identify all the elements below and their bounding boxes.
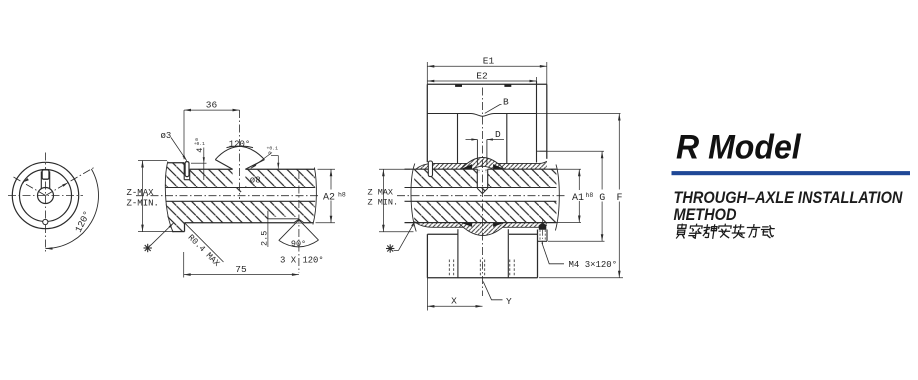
F text bg [614, 190, 626, 202]
right shaft bore top [405, 187, 557, 189]
Z dim arrow top [141, 161, 144, 168]
middle view asterisk [144, 244, 152, 252]
middle view shaft centerline [136, 195, 319, 197]
E1 arrow right [540, 65, 547, 68]
X arrow right [476, 305, 483, 308]
X arrow left [427, 305, 434, 308]
svg-text:0: 0 [268, 151, 271, 157]
housing o-ring mark right [504, 85, 511, 87]
flexspline top strip band [416, 161, 547, 169]
svg-text:Z-MAX: Z-MAX [127, 188, 155, 198]
right shaft bottom hatched band [414, 201, 556, 222]
A1 top extension [549, 168, 581, 170]
right break line curve [313, 168, 317, 225]
arrowhead at bottom of 120-degree arc [46, 247, 53, 250]
collar top edge [168, 162, 185, 164]
countersink notch at bottom edge [294, 219, 304, 223]
svg-text:B: B [503, 96, 509, 107]
left view vertical centerline [45, 153, 47, 253]
housing o-ring mark left [455, 85, 462, 87]
central slot left wall [476, 169, 478, 188]
svg-text:Z MIN.: Z MIN. [368, 198, 399, 208]
svg-text:Z MAX: Z MAX [368, 187, 394, 197]
M4 boss right wall [546, 230, 548, 242]
svg-text:G: G [599, 193, 605, 204]
flexspline top dome tooth zone [461, 158, 504, 170]
countersink left flank [215, 160, 232, 170]
pin slot right wall [189, 169, 191, 180]
svg-text:Z-MIN.: Z-MIN. [127, 199, 159, 209]
A1 arrow top [578, 169, 581, 176]
bottom housing inner wall left [457, 229, 459, 278]
shaft bottom edge [185, 222, 314, 224]
M4 set screw [539, 223, 547, 230]
hidden screw hole 3 in bottom flange [510, 260, 514, 277]
90deg fan right line [299, 220, 319, 240]
right Z bottom extension [379, 231, 414, 233]
dim 36 line [184, 109, 240, 111]
collar outer circle [12, 162, 78, 228]
svg-text:THROUGH–AXLE INSTALLATION: THROUGH–AXLE INSTALLATION [674, 189, 903, 207]
bottom housing inner wall right [507, 229, 509, 278]
countersink dome arc right [227, 146, 265, 159]
notch left hidden edge [267, 211, 269, 219]
leader dia3 arrowhead [183, 155, 187, 161]
right shaft bore bottom [405, 200, 557, 202]
central countersink lens [472, 166, 493, 169]
F arrow top [618, 114, 621, 121]
central slot V [477, 188, 487, 193]
E2 arrow left [427, 80, 434, 83]
right Z arrow bottom [382, 225, 385, 232]
E1 dim line [427, 65, 547, 67]
D dim line right [487, 139, 504, 141]
central boss left line [476, 140, 478, 165]
right shaft left break curve [411, 164, 416, 232]
F bottom extension [539, 277, 623, 279]
right view asterisk leader [394, 221, 416, 251]
arrowhead on upper-left axis [23, 178, 29, 182]
bore bottom line [166, 200, 316, 202]
svg-text:120°: 120° [229, 139, 251, 149]
Z dim top extension [138, 160, 167, 162]
dim 36 extension line left [183, 110, 185, 159]
dim 75 left extension [183, 252, 185, 278]
M4 hidden thread right [544, 230, 546, 241]
svg-text:D: D [495, 129, 501, 140]
svg-text:ø8: ø8 [250, 176, 261, 186]
M4 screw axis [542, 219, 544, 245]
A2 arrow bottom [330, 216, 333, 223]
housing inner wall right [506, 114, 508, 164]
small hole at bottom of shaft circle [43, 219, 48, 224]
R0.4 leader line [185, 223, 224, 262]
countersink V-slot axis [239, 110, 241, 199]
clamp mark top left [461, 164, 473, 169]
D arrow left [471, 138, 477, 140]
right view shaft centerline [397, 195, 566, 197]
collar step vertical [184, 223, 186, 232]
bottom housing top edge left [427, 233, 457, 235]
hidden screw hole 1 in bottom flange [449, 260, 453, 277]
shaft outer circle [20, 170, 72, 222]
housing inner wall left [457, 114, 459, 164]
svg-text:4: 4 [195, 148, 205, 153]
keyway slot left wall [40, 172, 42, 189]
arrowhead on upper-right axis [62, 182, 68, 186]
right shaft top edge [405, 168, 557, 170]
dowel pin body [185, 162, 189, 177]
keyway slot right wall [49, 172, 51, 189]
90deg fan left line [279, 220, 299, 241]
shaft top edge right part [245, 168, 314, 170]
central slot right wall [487, 169, 489, 188]
X dim line [427, 305, 482, 307]
svg-text:METHOD: METHOD [674, 206, 737, 224]
clamp mark top right [493, 164, 505, 169]
dim 4 line [203, 148, 205, 181]
A1 text bg [572, 190, 594, 201]
svg-text:E2: E2 [476, 71, 488, 82]
pin slot left wall [183, 163, 185, 180]
svg-text:ø3: ø3 [161, 131, 172, 141]
central boss right line [486, 140, 488, 165]
E1 left extension [426, 62, 428, 84]
svg-text:3 X: 3 X [280, 255, 297, 265]
pin slot bottom [184, 179, 190, 181]
middle section top hatched band [165, 163, 315, 194]
countersink axis bottom [298, 171, 300, 273]
svg-text:A1: A1 [572, 193, 584, 204]
countersink depth arrow [277, 163, 279, 169]
G dim line [601, 151, 603, 241]
E2 dim line [427, 80, 536, 82]
dim 36 arrow left [184, 109, 191, 112]
svg-text:2.5: 2.5 [260, 231, 270, 246]
pin end (round pin in slot) [42, 170, 49, 179]
Z dim bottom extension [138, 231, 173, 233]
right shaft right break curve [555, 165, 559, 231]
flexspline bottom strip band [416, 223, 547, 228]
B leader tick [500, 104, 502, 106]
svg-text:M4 3×120°: M4 3×120° [569, 260, 618, 270]
right Z dim line [382, 169, 384, 232]
Y leader [483, 282, 502, 300]
Z dim line [142, 161, 144, 232]
120-degree dimension arc [46, 169, 99, 249]
B leader [485, 105, 500, 114]
dim 36 arrow right [233, 109, 240, 112]
bottom housing bottom edge [427, 277, 537, 279]
A1 arrow bottom [578, 216, 581, 223]
A2 text background [323, 190, 340, 201]
chinese subtitle (drawn strokes) [676, 224, 774, 238]
middle view asterisk leader arrowhead [169, 223, 174, 228]
E2 arrow right [530, 80, 537, 83]
right Z top extension [379, 168, 410, 170]
svg-text:0: 0 [195, 137, 198, 143]
hidden screw hole 2 in bottom flange [480, 260, 484, 277]
middle section bottom hatched band [166, 201, 316, 231]
housing right outer wall [546, 84, 548, 159]
flexspline bottom strip boundary [416, 223, 547, 228]
countersink depth tick [271, 155, 278, 157]
left view horizontal centerline [8, 195, 83, 197]
svg-text:h8: h8 [586, 192, 594, 199]
countersink tolerance leader [251, 153, 272, 169]
M4 boss bottom [538, 240, 548, 242]
E1 arrow left [427, 65, 434, 68]
bore top line [166, 187, 316, 189]
dim 2.5 line [267, 219, 269, 247]
right view asterisk [386, 244, 394, 252]
right view vertical centerline [482, 88, 484, 297]
diaphragm line with dip [427, 114, 536, 117]
A2 bottom extension [316, 222, 336, 224]
right shaft top hatched band [414, 169, 556, 193]
D dim line left [466, 139, 478, 141]
hidden pin hole tick right [485, 170, 487, 173]
clamp mark bottom left [461, 223, 473, 227]
right view dowel pin [428, 161, 432, 177]
svg-text:75: 75 [235, 264, 247, 275]
notch top line [268, 218, 299, 220]
countersink dome arc left [215, 146, 253, 159]
shaft top edge left part [190, 168, 233, 170]
thread relief notch (2.5) white patch [268, 217, 299, 223]
clamp mark bottom right [493, 223, 505, 227]
G bottom extension [548, 240, 605, 242]
svg-text:36: 36 [206, 100, 218, 111]
bottom housing left wall [426, 234, 428, 278]
90deg fan arc [279, 240, 319, 247]
F dim line [618, 114, 620, 278]
housing top edge [427, 83, 547, 85]
bottom housing top edge right [509, 233, 538, 235]
right Z arrow top [382, 169, 385, 176]
diaphragm extension to F dim [537, 113, 621, 115]
dim 75 arrow left [184, 273, 191, 276]
countersink depth dim line [277, 156, 279, 169]
G text bg [597, 190, 609, 202]
E2 right extension [536, 77, 538, 81]
right shaft bottom edge [405, 222, 557, 224]
hidden pin hole tick left [478, 170, 480, 173]
shaft bore circle [38, 188, 54, 204]
M4 hidden thread left [539, 230, 541, 241]
countersink right flank [245, 160, 264, 170]
M4 leader [542, 243, 564, 264]
left view 120-deg hole axis upper-right (extended to arc) [46, 167, 96, 196]
svg-text:X: X [451, 296, 457, 307]
right view asterisk arrowhead [411, 221, 415, 227]
bottom housing right wall [537, 230, 539, 278]
svg-text:90°: 90° [291, 239, 306, 249]
Z dim arrow bottom [141, 225, 144, 232]
dim 4 reference line at pin top [191, 162, 207, 164]
svg-text:Y: Y [506, 296, 512, 307]
G top extension [540, 150, 604, 152]
housing left wall [426, 84, 428, 162]
svg-text:F: F [616, 193, 622, 204]
X left extension [426, 278, 428, 311]
blue divider bar [672, 171, 911, 175]
svg-text:E1: E1 [483, 56, 495, 67]
countersink tolerance leader arrowhead [251, 164, 256, 169]
leader dia3 [171, 138, 187, 161]
flexspline top strip boundary [416, 161, 547, 169]
dim 75 arrow right [292, 273, 299, 276]
A1 dim line [578, 169, 580, 222]
E1 right extension [546, 62, 548, 84]
svg-text:h8: h8 [338, 191, 346, 198]
svg-text:R Model: R Model [676, 128, 801, 166]
left view 120-deg hole axis upper-left [14, 177, 46, 196]
housing inner wall E2 [536, 81, 538, 163]
left break line curve [165, 162, 173, 233]
flexspline bottom dome tooth zone [458, 223, 507, 236]
dim 75 line [184, 274, 299, 276]
collar bottom edge [172, 231, 184, 233]
G arrow top [601, 151, 604, 158]
svg-text:120°: 120° [303, 255, 324, 265]
A2 top extension [318, 168, 336, 170]
housing step right [537, 150, 547, 152]
A2 dim line [330, 169, 332, 223]
F arrow bottom [618, 271, 621, 278]
G arrow bottom [601, 234, 604, 241]
svg-text:A2: A2 [323, 193, 335, 204]
middle view asterisk leader [151, 223, 174, 245]
A1 bottom extension [548, 222, 581, 224]
A2 arrow top [330, 169, 333, 176]
dim 4 arrow [203, 157, 205, 163]
D arrow right [487, 138, 493, 140]
